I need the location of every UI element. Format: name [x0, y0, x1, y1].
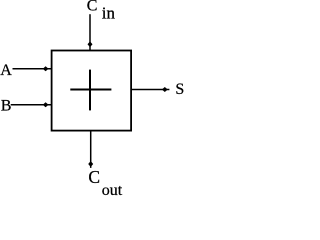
wire A input [13, 68, 52, 70]
wire Cout output [90, 131, 92, 168]
arrowhead B [43, 103, 48, 107]
arrowhead A [43, 67, 48, 71]
svg-text:A: A [0, 62, 12, 79]
arrowhead Cout [89, 162, 93, 167]
svg-text:in: in [102, 4, 116, 23]
svg-text:B: B [1, 98, 12, 115]
svg-text:C: C [88, 167, 100, 187]
wire S output [131, 89, 169, 91]
svg-text:S: S [175, 81, 184, 98]
arrowhead S [162, 87, 167, 91]
plus symbol inside box [70, 70, 111, 111]
full-adder box U1 [52, 51, 132, 131]
arrowhead Cin [88, 42, 92, 47]
wire Cin input [89, 14, 91, 50]
wire B input [11, 104, 52, 106]
svg-text:C: C [87, 0, 98, 15]
svg-text:out: out [102, 182, 123, 196]
